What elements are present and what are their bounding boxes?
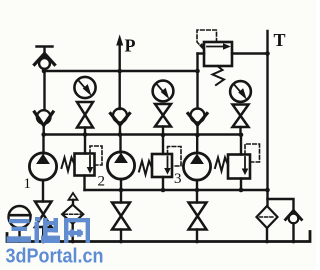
pilot line RV1 (dashed) (90, 146, 102, 165)
wire branch to bypass check (268, 199, 294, 212)
plug T-bar (37, 47, 53, 58)
node pline-F (239, 133, 244, 138)
node tank-E (195, 240, 199, 244)
wire T line (266, 31, 268, 206)
node manifold-A (42, 69, 47, 74)
pilot line RV2 (dashed) (168, 147, 182, 167)
wire pump2 suction (120, 179, 122, 203)
node tank-C (119, 240, 123, 244)
wire RV1 to drain (83, 176, 85, 191)
wire RV0 right port to T (232, 52, 268, 54)
spring RV2 (139, 161, 152, 175)
check valve V4 (188, 109, 207, 126)
wire GV3 to pressure line (239, 127, 241, 135)
spring RV0 (213, 66, 225, 85)
wire bottom tank manifold (7, 232, 310, 242)
node drain-D (161, 188, 166, 193)
wire drain line y190 (85, 189, 268, 191)
wire pump3 suction (196, 180, 198, 203)
wire pump3 top stem (196, 135, 198, 153)
wire SV3 to tank (196, 230, 198, 242)
wire RV2 to drain (162, 177, 164, 190)
return filter F2 (257, 206, 278, 228)
wire V4 to pressure line (196, 125, 198, 135)
gauge valve GV1 (77, 102, 93, 128)
wire SV1 to tank (42, 227, 44, 242)
wire col-A to pressure line (43, 126, 45, 135)
relief valve RV1 (75, 154, 95, 176)
wire relief input down (196, 54, 198, 109)
wire GV2 to pressure line (162, 127, 164, 136)
wire col-A upper (43, 69, 45, 110)
wire strainer to tank (71, 224, 73, 242)
check valve V1 (vent) (35, 54, 55, 69)
wire V5 to tank (292, 223, 294, 241)
shut-off valve SV2 (112, 203, 130, 230)
check valve V3 (111, 109, 130, 126)
watermark 三维网 (7, 217, 91, 243)
pump 1 (29, 153, 56, 180)
wire pressure line y134.5 (44, 133, 242, 135)
node tank-F1 (71, 240, 75, 244)
svg-text:2: 2 (98, 174, 106, 190)
wire pump1 suction (42, 180, 44, 202)
level gauge LG (9, 206, 31, 228)
node drain-E (195, 188, 200, 193)
relief valve RV3 (228, 155, 250, 179)
pressure gauge G2 (153, 81, 174, 102)
wire pump1 top stem (42, 135, 44, 154)
wire to relief valve RV3 (240, 135, 242, 155)
node drain-F (239, 188, 244, 193)
wire P down (118, 44, 120, 71)
wire LG to tank (18, 228, 20, 242)
node manifold-E (195, 69, 200, 74)
node manifold-P (117, 69, 122, 74)
wire to relief valve RV2 (162, 135, 164, 154)
spring RV1 (62, 158, 75, 172)
wire RV3 to drain (240, 179, 242, 191)
pressure gauge G1 (74, 77, 95, 98)
wire SV2 to tank (120, 230, 122, 242)
wire manifold top y71 (44, 70, 198, 72)
node pline-D (161, 133, 166, 138)
node pline-C (118, 132, 123, 137)
svg-text:P: P (125, 36, 136, 56)
node tank-V5 (292, 240, 296, 244)
check valve V2 (35, 110, 54, 125)
svg-text:T: T (274, 30, 286, 50)
arrow P (117, 36, 123, 45)
gauge valve GV3 (233, 105, 249, 128)
node drain-T (265, 188, 270, 193)
relief valve RV2 (152, 154, 172, 177)
main relief valve RV0 (204, 42, 232, 66)
node pline-E (195, 133, 200, 138)
wire P to check valve (118, 71, 120, 109)
suction strainer F1 (62, 193, 83, 224)
node pline-A (41, 132, 46, 137)
svg-text:1: 1 (24, 176, 32, 192)
node drain-C (119, 188, 124, 193)
node T-relief (265, 51, 270, 56)
wire pump2 top stem (119, 135, 121, 153)
pressure gauge G3 (230, 81, 251, 102)
wire to relief valve RV1 (84, 135, 86, 154)
pilot line RV3 (dashed) (245, 144, 260, 162)
wire RV0 left port (198, 52, 205, 54)
pump 3 (183, 153, 210, 180)
pilot line RV0 (dashed) (197, 30, 217, 48)
spring RV3 (215, 158, 228, 172)
node tank-A (41, 240, 45, 244)
shut-off valve SV3 (189, 203, 207, 230)
wire GV1 to pressure line (84, 128, 86, 135)
gauge valve GV2 (155, 104, 171, 127)
wire V3 to pressure line (119, 125, 121, 135)
wire filter to tank (266, 228, 268, 242)
check valve V5 (bypass) (286, 211, 302, 224)
svg-text:3: 3 (174, 171, 182, 187)
pump 2 (107, 152, 134, 179)
node pline-B (83, 132, 88, 137)
svg-text:3dPortal.cn: 3dPortal.cn (6, 246, 104, 268)
node tank-F2 (265, 240, 269, 244)
shut-off valve SV1 (35, 202, 52, 228)
